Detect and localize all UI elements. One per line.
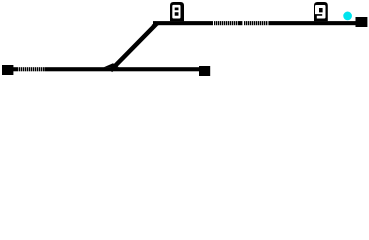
wire: bottom track solid section <box>45 67 200 71</box>
node: track-circuit boundary solid block <box>238 21 242 25</box>
signal 9 plate <box>314 2 328 21</box>
signal 8 plate <box>170 2 184 21</box>
wire: top track striped section A <box>214 21 237 25</box>
train describer berth dot (cyan) <box>343 12 352 21</box>
wire: fork fillet at bottom junction <box>104 63 120 67</box>
wire: bottom track striped track-circuit section <box>19 67 44 71</box>
wire: fillet at top junction <box>152 21 159 25</box>
wire: top track solid right section <box>268 21 355 25</box>
wire: top track solid left section <box>153 21 213 25</box>
wire: top track striped section B <box>244 21 267 25</box>
buffer stop right (bottom track) <box>199 66 210 76</box>
wire: diagonal crossover from bottom track to top track <box>111 24 157 71</box>
wire: bottom track solid stub after buffer <box>13 67 18 71</box>
buffer stop left (bottom track) <box>2 65 13 75</box>
buffer stop right (top track) <box>356 17 368 27</box>
